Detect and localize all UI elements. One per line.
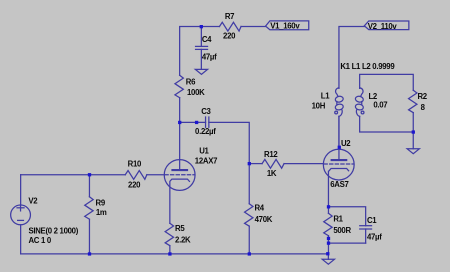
junction U2 plate	[338, 146, 341, 149]
wire V2_110v flag row	[339, 27, 365, 89]
svg-text:R5: R5	[175, 224, 185, 233]
ground under R2	[407, 149, 419, 154]
svg-text:K1 L1 L2 0.9999: K1 L1 L2 0.9999	[340, 62, 395, 71]
resistor R4	[245, 204, 253, 226]
svg-text:V2: V2	[28, 197, 38, 206]
resistor R1	[324, 207, 332, 254]
wire R4 to rail	[248, 226, 250, 254]
ground under rail	[322, 259, 334, 264]
svg-text:C4: C4	[202, 35, 212, 44]
ground stub under node E	[412, 132, 414, 149]
svg-text:10H: 10H	[312, 101, 326, 110]
wire top row left (V2 to R10)	[21, 174, 126, 176]
capacitor C4	[196, 27, 208, 70]
junction C1 return	[327, 242, 330, 245]
wire R7 to flag V1	[241, 26, 266, 28]
junction C3 left pin	[195, 121, 198, 124]
resistor R2	[409, 90, 417, 112]
capacitor C3	[206, 117, 209, 127]
wire L2 bottom to node E	[360, 116, 414, 132]
svg-text:470K: 470K	[255, 215, 273, 224]
svg-text:8: 8	[421, 103, 426, 112]
junction rail ground	[326, 252, 329, 255]
wire R12 to U2 grid	[284, 163, 323, 165]
svg-text:47µf: 47µf	[367, 232, 382, 241]
resistor R6	[175, 75, 183, 97]
wire C1 bottom to R1 column	[328, 242, 365, 244]
svg-text:R7: R7	[225, 12, 234, 21]
svg-text:U2: U2	[341, 139, 351, 148]
svg-text:2.2K: 2.2K	[175, 236, 191, 245]
junction node B	[178, 121, 181, 124]
junction rail R9	[88, 252, 91, 255]
svg-text:R10: R10	[128, 159, 142, 168]
resistor R7	[219, 22, 241, 31]
svg-text:U1: U1	[199, 147, 209, 156]
wire C3 to node C	[209, 122, 249, 163]
wire R7 left lead	[201, 26, 219, 28]
svg-text:100K: 100K	[187, 88, 205, 97]
svg-text:6AS7: 6AS7	[330, 180, 348, 189]
wire R6 to node B	[179, 98, 181, 123]
resistor R12	[262, 159, 284, 168]
svg-text:C1: C1	[367, 216, 377, 225]
resistor R9	[85, 175, 93, 254]
ground under C4	[195, 69, 207, 74]
triode U1	[164, 122, 195, 223]
svg-text:R1: R1	[333, 215, 343, 224]
svg-text:V2_110v: V2_110v	[368, 22, 398, 31]
svg-text:V1_160v: V1_160v	[270, 22, 300, 31]
svg-text:R6: R6	[186, 77, 196, 86]
svg-text:12AX7: 12AX7	[195, 156, 217, 165]
svg-text:R9: R9	[96, 198, 106, 207]
wire R10 to U1 grid	[147, 174, 164, 176]
wire node D to C1	[328, 207, 365, 226]
wire R5 to rail	[169, 246, 171, 254]
wire node C down to R4	[248, 164, 250, 204]
svg-text:SINE(0 2 1000): SINE(0 2 1000)	[28, 227, 78, 236]
inductor L2	[355, 88, 364, 117]
svg-text:220: 220	[223, 31, 236, 40]
svg-text:R12: R12	[264, 150, 278, 159]
junction R9 top	[88, 173, 91, 176]
wire top-left corner to junction	[180, 27, 202, 76]
svg-text:1m: 1m	[96, 208, 107, 217]
junction rail R5	[168, 252, 171, 255]
svg-text:0.07: 0.07	[373, 101, 387, 110]
junction node D	[327, 205, 330, 208]
junction rail R4	[248, 252, 251, 255]
triode U2	[323, 116, 354, 206]
resistor R10	[125, 171, 147, 180]
inductor L1	[335, 88, 344, 117]
svg-text:R4: R4	[254, 204, 264, 213]
junction node C	[248, 162, 251, 165]
svg-text:AC 1 0: AC 1 0	[28, 236, 51, 245]
resistor R5	[165, 223, 173, 245]
svg-text:C3: C3	[201, 107, 211, 116]
svg-text:0.22µf: 0.22µf	[195, 127, 216, 136]
wire L1 to U2 plate	[338, 116, 340, 149]
ground stub at rail end	[327, 254, 329, 259]
svg-text:R2: R2	[417, 92, 427, 101]
wire R2 to node E	[412, 113, 414, 132]
wire node C to R12	[249, 163, 262, 165]
svg-text:220: 220	[128, 180, 141, 189]
wire node B to C3	[180, 121, 206, 123]
net flag V1_160v	[266, 21, 309, 30]
capacitor C1	[360, 226, 372, 243]
wire L2 top to R2	[360, 74, 414, 90]
junction R1 bottom	[327, 237, 330, 240]
svg-text:47µf: 47µf	[202, 52, 217, 61]
svg-text:1K: 1K	[267, 169, 277, 178]
svg-text:L1: L1	[321, 92, 330, 101]
svg-text:500R: 500R	[333, 226, 351, 235]
net flag V2_110v	[364, 21, 409, 30]
ground rail (bottom wire)	[21, 253, 329, 255]
junction top R7/C4	[200, 25, 203, 28]
junction node E	[412, 130, 415, 133]
voltage source V2	[11, 175, 31, 254]
